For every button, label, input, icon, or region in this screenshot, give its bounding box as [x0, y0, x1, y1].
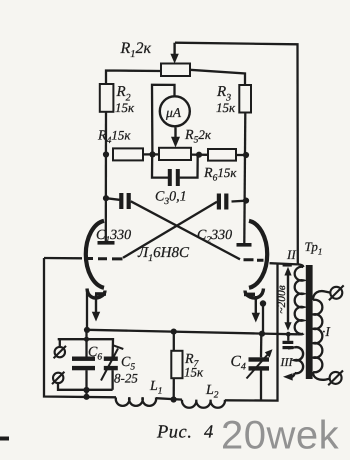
svg-text:L1: L1 — [149, 379, 163, 397]
svg-text:L2: L2 — [205, 383, 219, 401]
svg-text:·I: ·I — [322, 324, 331, 339]
svg-text:C2330: C2330 — [197, 228, 232, 246]
svg-text:20wek: 20wek — [221, 414, 340, 458]
svg-text:Тр1: Тр1 — [305, 239, 323, 257]
svg-text:15к: 15к — [184, 365, 204, 380]
svg-text:8-25: 8-25 — [114, 371, 138, 386]
svg-text:III: III — [280, 355, 294, 369]
svg-text:15к: 15к — [115, 100, 135, 115]
svg-text:R52к: R52к — [184, 127, 212, 146]
svg-text:~200в: ~200в — [276, 285, 288, 313]
svg-text:R12к: R12к — [120, 40, 152, 60]
svg-text:R415к: R415к — [97, 128, 131, 147]
svg-text:C1330: C1330 — [96, 228, 131, 246]
svg-text:II: II — [286, 247, 296, 262]
svg-text:Рис.: Рис. — [156, 423, 192, 443]
svg-text:μА: μА — [165, 105, 182, 120]
svg-text:4: 4 — [204, 423, 213, 443]
svg-text:Л16Н8С: Л16Н8С — [137, 245, 190, 264]
svg-text:R615к: R615к — [203, 165, 237, 184]
svg-text:C4: C4 — [231, 353, 246, 373]
svg-text:15к: 15к — [216, 100, 236, 115]
svg-text:C30,1: C30,1 — [155, 190, 187, 208]
svg-text:C6: C6 — [88, 345, 102, 363]
